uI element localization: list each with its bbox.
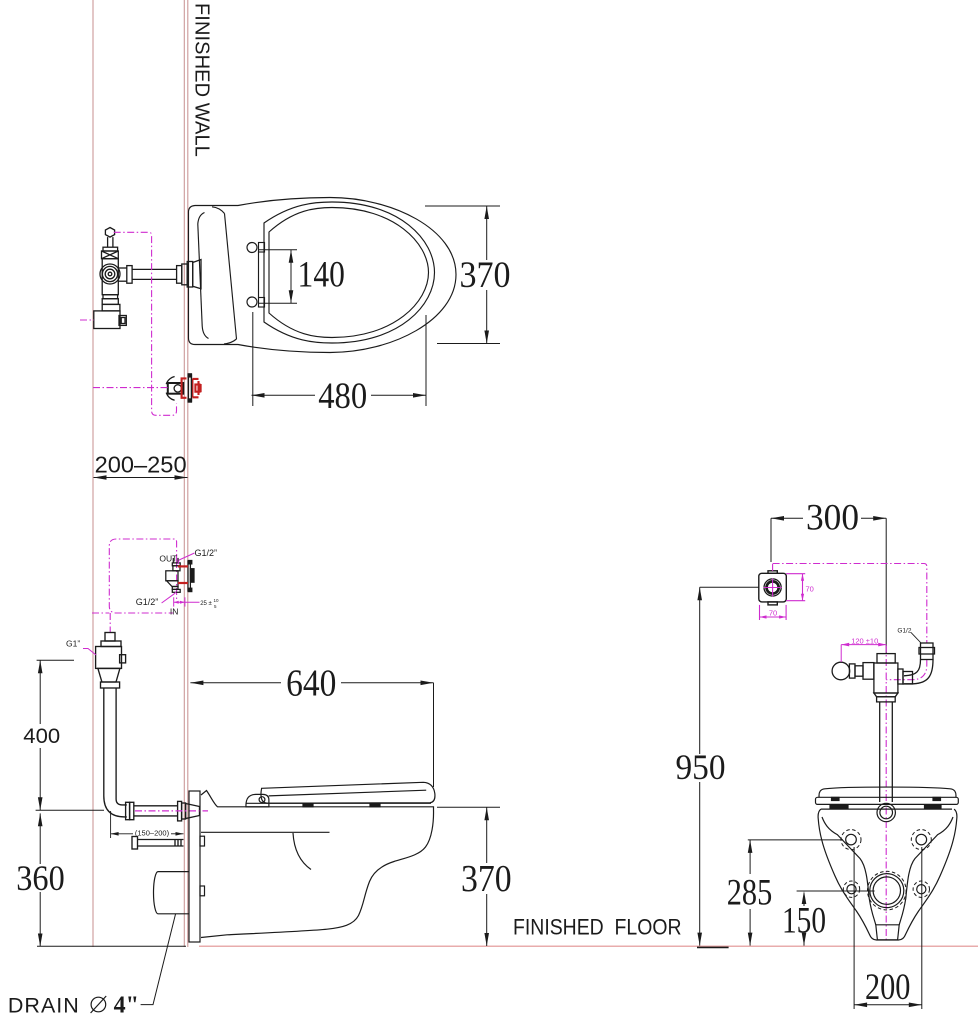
svg-text:360: 360 <box>16 858 64 898</box>
svg-text:G1/2: G1/2 <box>897 627 911 634</box>
svg-text:(150–200): (150–200) <box>135 829 170 838</box>
svg-text:140: 140 <box>298 255 345 296</box>
svg-text:FINISHED FLOOR: FINISHED FLOOR <box>513 914 682 939</box>
svg-text:370: 370 <box>460 254 511 295</box>
svg-text:25 ±: 25 ± <box>200 601 212 607</box>
svg-text:400: 400 <box>23 723 60 748</box>
svg-text:370: 370 <box>461 858 512 900</box>
svg-text:10: 10 <box>214 598 220 603</box>
svg-text:480: 480 <box>318 376 367 417</box>
svg-text:G1/2”: G1/2” <box>136 597 159 607</box>
svg-text:FINISHED WALL: FINISHED WALL <box>190 3 212 158</box>
svg-text:70: 70 <box>769 609 777 618</box>
svg-text:200–250: 200–250 <box>95 452 187 478</box>
svg-text:285: 285 <box>727 873 773 914</box>
svg-text:200: 200 <box>865 967 911 1008</box>
svg-text:300: 300 <box>806 498 859 539</box>
svg-text:640: 640 <box>286 663 336 705</box>
svg-text:70: 70 <box>806 585 814 594</box>
svg-text:120 ±10: 120 ±10 <box>851 637 878 646</box>
svg-text:DRAIN: DRAIN <box>8 994 80 1018</box>
svg-text:G1/2”: G1/2” <box>195 548 218 558</box>
svg-text:150: 150 <box>782 901 826 942</box>
svg-text:IN: IN <box>170 606 179 616</box>
svg-text:950: 950 <box>676 747 726 787</box>
svg-text:4": 4" <box>114 993 139 1019</box>
svg-text:OUT: OUT <box>159 554 177 564</box>
svg-text:G1”: G1” <box>66 639 80 649</box>
